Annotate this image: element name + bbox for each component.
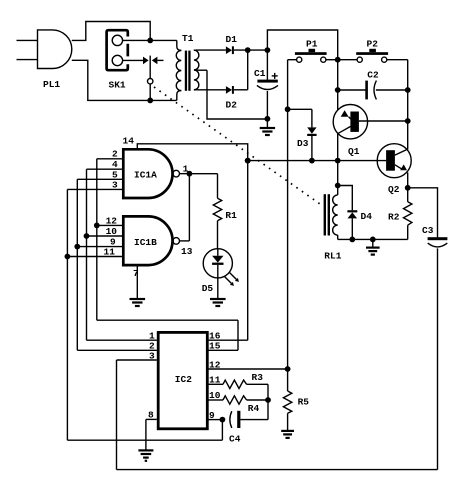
svg-text:8: 8 [148, 410, 154, 421]
svg-text:10: 10 [209, 390, 221, 401]
svg-text:3: 3 [112, 179, 118, 190]
svg-text:13: 13 [181, 246, 193, 257]
svg-text:D1: D1 [226, 34, 238, 45]
svg-text:1: 1 [183, 163, 189, 174]
svg-text:11: 11 [209, 375, 221, 386]
svg-text:R2: R2 [388, 212, 400, 223]
svg-text:SK1: SK1 [109, 80, 126, 91]
svg-text:2: 2 [112, 149, 118, 160]
svg-text:3: 3 [149, 350, 155, 361]
svg-text:C1: C1 [254, 68, 266, 79]
svg-text:10: 10 [106, 226, 118, 237]
svg-text:Q1: Q1 [348, 146, 360, 157]
svg-text:PL1: PL1 [43, 79, 60, 90]
svg-text:R1: R1 [225, 210, 237, 221]
svg-text:D5: D5 [202, 283, 214, 294]
svg-text:Q2: Q2 [388, 184, 400, 195]
svg-text:12: 12 [106, 216, 118, 227]
svg-text:C4: C4 [229, 434, 241, 445]
svg-text:C3: C3 [422, 225, 434, 236]
svg-text:C2: C2 [367, 69, 379, 80]
svg-text:RL1: RL1 [324, 250, 341, 261]
svg-text:IC1B: IC1B [134, 237, 157, 248]
svg-text:T1: T1 [182, 33, 194, 44]
svg-text:P1: P1 [306, 39, 318, 50]
svg-text:IC2: IC2 [175, 374, 192, 385]
svg-text:15: 15 [209, 341, 221, 352]
svg-text:11: 11 [104, 247, 116, 258]
svg-text:12: 12 [209, 359, 221, 370]
svg-text:D4: D4 [361, 211, 373, 222]
svg-text:14: 14 [123, 136, 135, 147]
svg-text:7: 7 [133, 268, 139, 279]
svg-text:R3: R3 [252, 372, 264, 383]
svg-text:9: 9 [209, 410, 215, 421]
svg-text:P2: P2 [367, 39, 379, 50]
svg-text:R4: R4 [248, 403, 260, 414]
svg-text:D2: D2 [226, 100, 238, 111]
svg-text:IC1A: IC1A [134, 170, 157, 181]
svg-text:D3: D3 [297, 138, 309, 149]
svg-text:R5: R5 [298, 397, 310, 408]
